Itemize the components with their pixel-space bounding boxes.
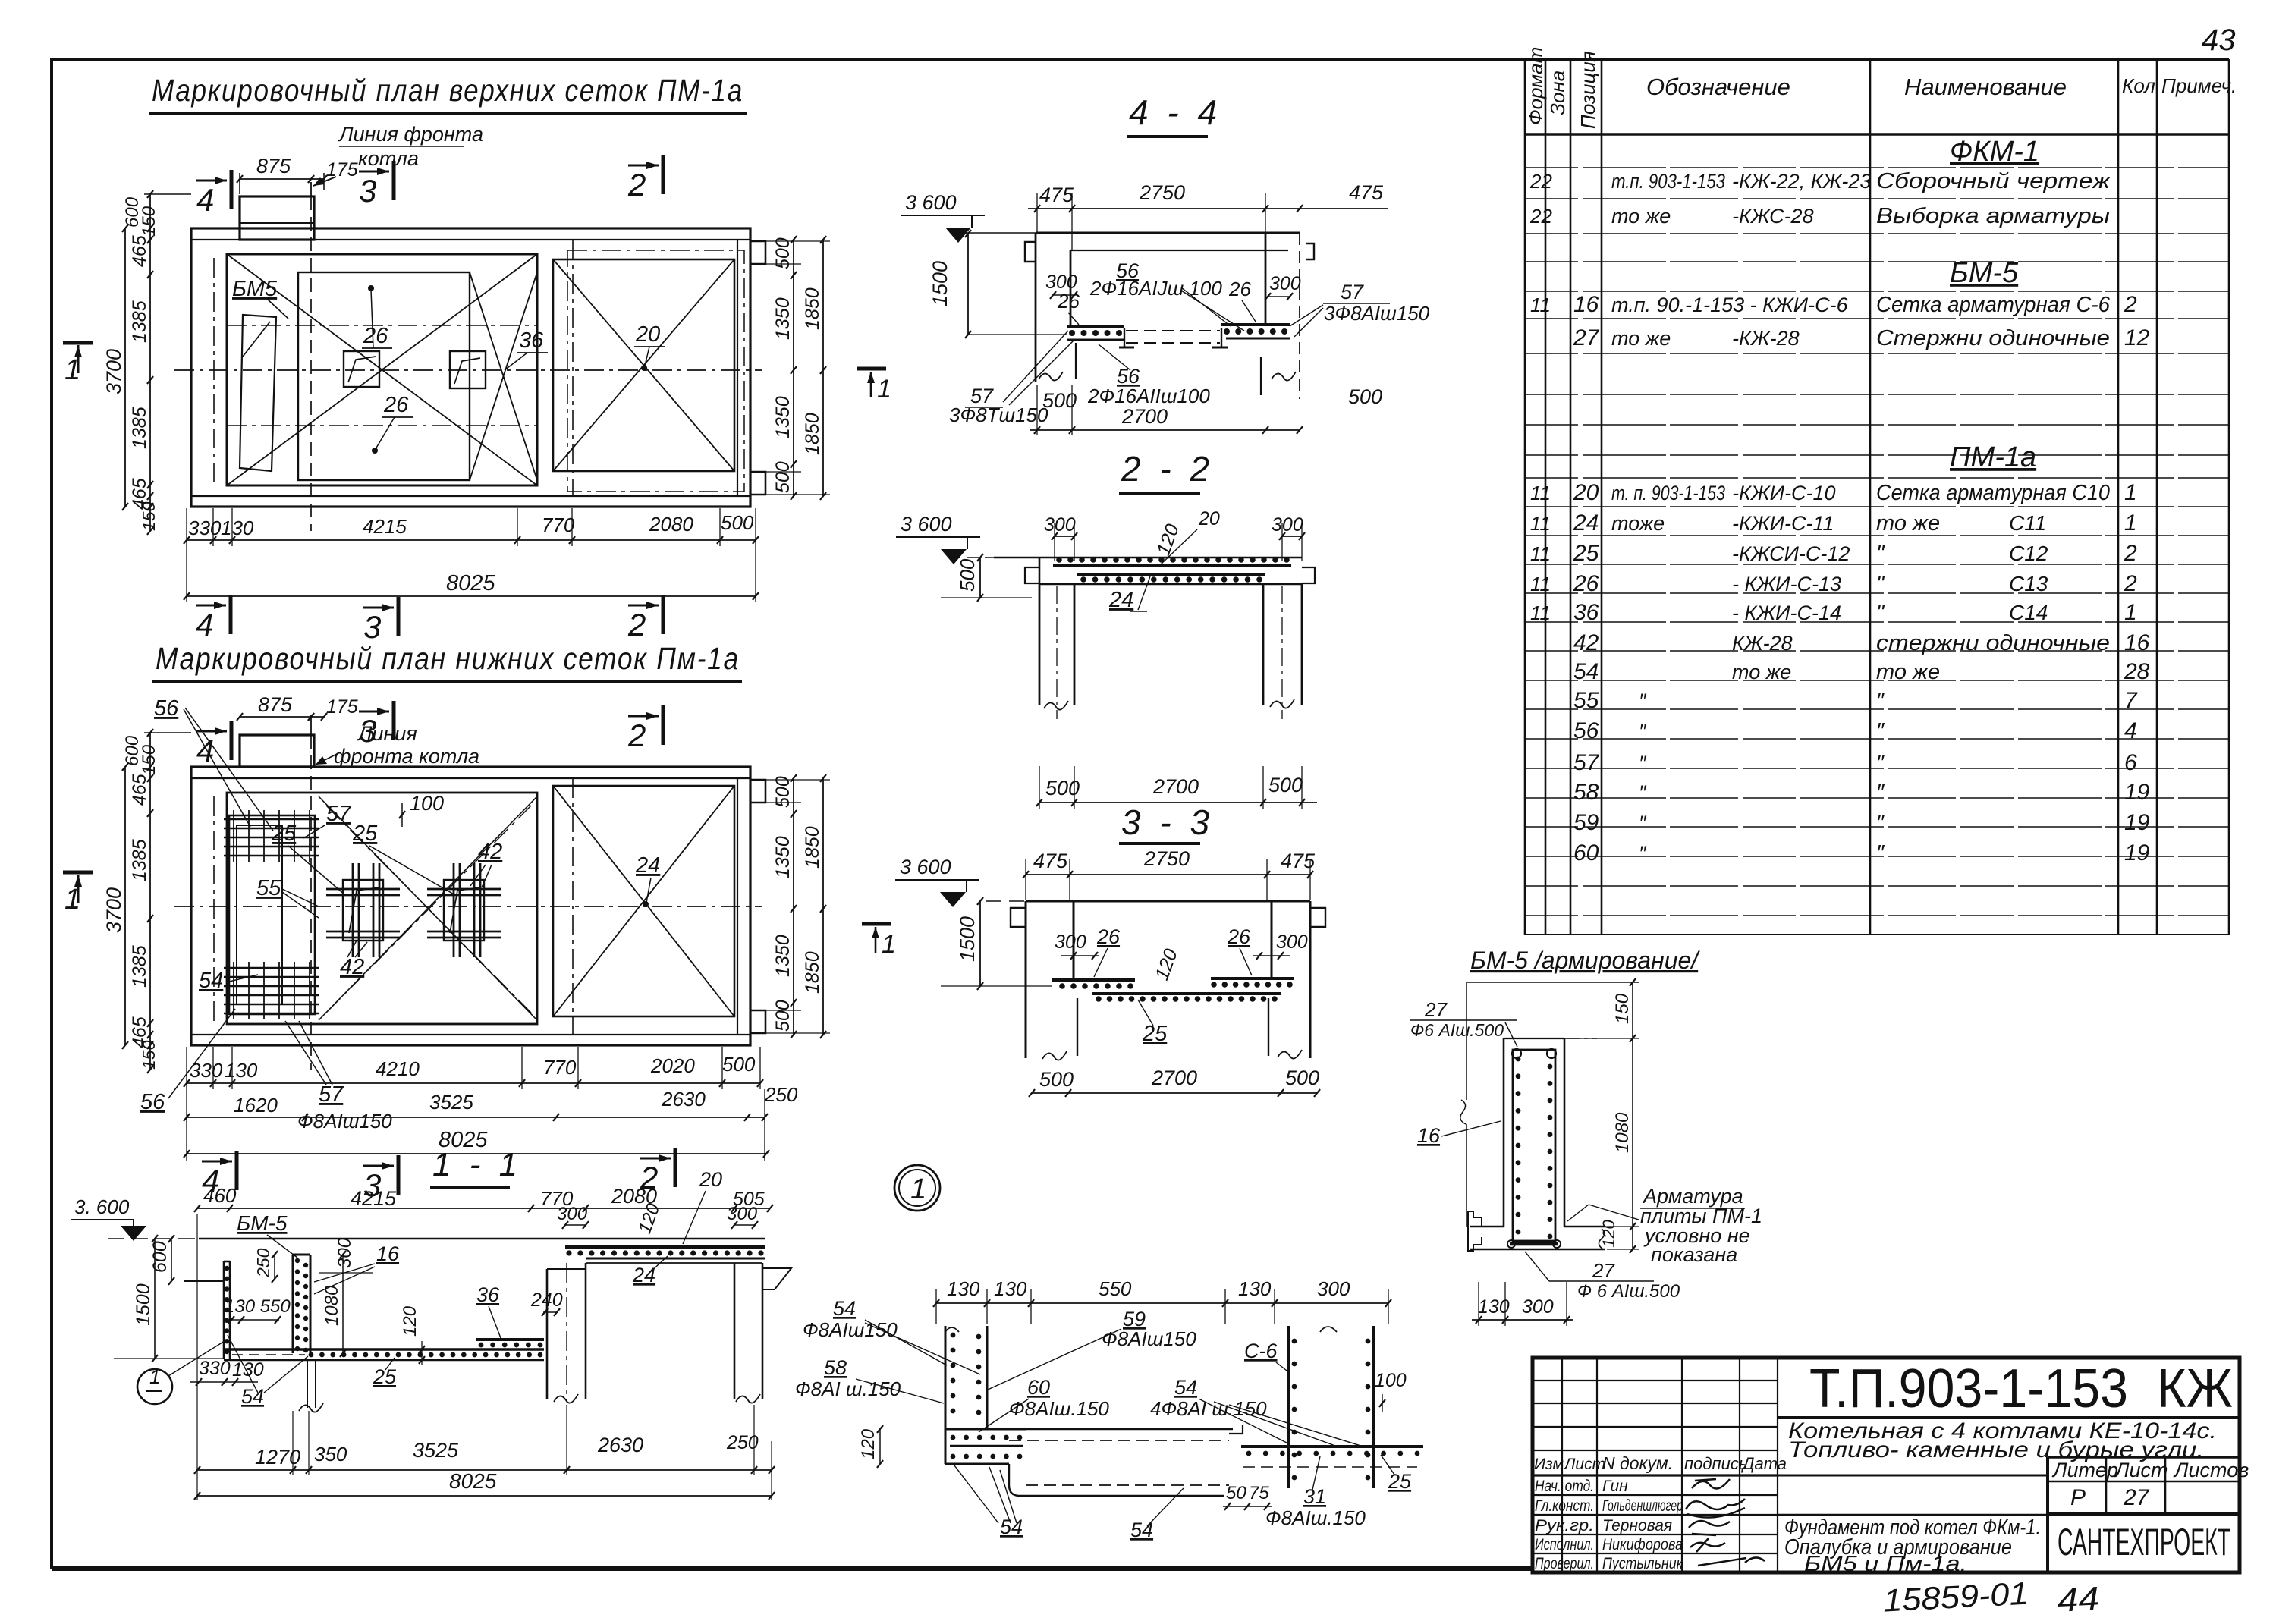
overall 8025 [187, 595, 756, 597]
detail circle mark 1 [894, 1165, 940, 1211]
left thin wall [223, 1261, 225, 1359]
svg-text:300: 300 [557, 1204, 588, 1224]
svg-text:3: 3 [359, 713, 376, 749]
svg-text:600: 600 [149, 1241, 171, 1273]
svg-text:″: ″ [1639, 720, 1647, 743]
svg-text:4215: 4215 [351, 1187, 397, 1210]
svg-text:130: 130 [225, 1059, 258, 1082]
svg-text:Наименование: Наименование [1904, 74, 2067, 100]
svg-text:″: ″ [1639, 752, 1647, 774]
svg-text:3: 3 [363, 609, 381, 645]
svg-text:58: 58 [824, 1356, 847, 1379]
svg-text:60: 60 [1027, 1376, 1050, 1399]
svg-text:Ф8АIш.150: Ф8АIш.150 [1265, 1506, 1366, 1529]
svg-text:44: 44 [2057, 1580, 2100, 1619]
svg-text:Позиция: Позиция [1577, 51, 1599, 129]
left dims lower plan [149, 733, 151, 1070]
svg-text:350: 350 [314, 1443, 347, 1465]
BM5 beam plan [240, 315, 276, 471]
svg-text:4: 4 [196, 607, 213, 642]
svg-text:330: 330 [199, 1358, 231, 1379]
svg-text:27: 27 [1424, 998, 1448, 1021]
svg-text:24: 24 [635, 853, 660, 878]
svg-text:": " [1876, 542, 1885, 566]
svg-text:54: 54 [241, 1385, 264, 1408]
svg-text:2020: 2020 [650, 1054, 695, 1077]
svg-text:1385: 1385 [129, 300, 150, 343]
bottom dims 500 2700 500 [1030, 429, 1300, 431]
svg-text:С14: С14 [2009, 601, 2048, 624]
svg-text:500: 500 [721, 511, 754, 534]
svg-text:2700: 2700 [1121, 405, 1168, 428]
svg-text:54: 54 [1174, 1376, 1197, 1399]
svg-text:3 600: 3 600 [905, 191, 957, 214]
boiler front line label [310, 182, 312, 196]
svg-text:300: 300 [1317, 1277, 1350, 1300]
svg-text:460: 460 [203, 1184, 237, 1207]
svg-text:2700: 2700 [1151, 1066, 1197, 1089]
svg-text:500: 500 [772, 237, 794, 269]
top dim chain 1-1 [197, 1208, 770, 1209]
corner floor [945, 1428, 1026, 1431]
bottom dimension chain [187, 539, 756, 541]
svg-text:54: 54 [833, 1297, 856, 1320]
svg-text:Проверил.: Проверил. [1535, 1555, 1594, 1572]
svg-text:Маркировочный план нижних с: Маркировочный план нижних сеток Пм-1а [156, 641, 740, 676]
wall band lines [191, 239, 750, 240]
svg-text:475: 475 [1281, 850, 1316, 872]
svg-text:4: 4 [2124, 718, 2137, 743]
svg-text:-КЖ-28: -КЖ-28 [1732, 327, 1800, 350]
svg-text:ПМ-1а: ПМ-1а [1950, 441, 2036, 473]
svg-text:1385: 1385 [129, 945, 150, 988]
dim 600 [171, 1239, 172, 1281]
svg-text:25: 25 [1573, 541, 1599, 566]
leg below floor [307, 1360, 308, 1408]
svg-text:16: 16 [376, 1242, 400, 1265]
svg-text:″: ″ [1639, 842, 1647, 865]
dim 875/175 top [240, 178, 311, 180]
svg-text:Листов: Листов [2173, 1459, 2249, 1481]
svg-text:3Ф8Тш150: 3Ф8Тш150 [949, 404, 1048, 426]
svg-text:27: 27 [1592, 1259, 1615, 1282]
svg-text:500: 500 [772, 461, 794, 493]
svg-text:Изм: Изм [1534, 1456, 1564, 1473]
svg-text:1270: 1270 [255, 1446, 300, 1469]
slab to the right of corner [1026, 1428, 1233, 1430]
svg-text:150: 150 [139, 206, 159, 237]
svg-text:75: 75 [1249, 1483, 1269, 1503]
svg-text:130 550: 130 550 [225, 1296, 291, 1317]
svg-text:25: 25 [1388, 1470, 1412, 1493]
svg-text:3700: 3700 [102, 887, 125, 933]
svg-text:Ф8АIш.150: Ф8АIш.150 [1009, 1397, 1109, 1420]
anchor opening left [344, 351, 379, 387]
300 dims on elevated slab [565, 1224, 586, 1226]
svg-text:Гл.конст.: Гл.конст. [1535, 1497, 1594, 1515]
svg-text:3 600: 3 600 [900, 856, 951, 878]
right dims lower plan [793, 778, 794, 1035]
central mesh rect [298, 272, 470, 480]
dim 120 left [879, 1429, 881, 1464]
svg-text:КЖ: КЖ [2157, 1359, 2233, 1419]
svg-text:59: 59 [1573, 810, 1599, 835]
svg-text:100: 100 [410, 792, 444, 815]
svg-text:15859-01: 15859-01 [1882, 1575, 2029, 1619]
svg-text:770: 770 [543, 1056, 577, 1079]
svg-text:Сетка арматурная С10: Сетка арматурная С10 [1876, 481, 2110, 505]
svg-text:25: 25 [271, 821, 297, 846]
svg-text:500: 500 [772, 1000, 794, 1032]
svg-text:25: 25 [373, 1365, 397, 1388]
svg-text:150: 150 [139, 1040, 159, 1070]
svg-text:то же: то же [1732, 661, 1791, 683]
bottom dims 3-3 [1032, 1092, 1317, 1094]
svg-text:Т.П.903-1-153: Т.П.903-1-153 [1809, 1359, 2128, 1419]
svg-text:11: 11 [1530, 542, 1551, 565]
svg-text:57: 57 [1573, 750, 1600, 775]
svg-text:″: ″ [1639, 689, 1647, 712]
svg-text:Обозначение: Обозначение [1646, 74, 1790, 100]
svg-text:-КЖИ-С-10: -КЖИ-С-10 [1732, 482, 1836, 504]
svg-text:1: 1 [2124, 600, 2137, 625]
svg-text:1385: 1385 [129, 839, 150, 881]
svg-text:56: 56 [140, 1090, 165, 1114]
svg-text:С13: С13 [2009, 572, 2048, 595]
BM-5 column [292, 1255, 294, 1353]
svg-text:показана: показана [1651, 1243, 1737, 1266]
dim 250 [274, 1255, 275, 1279]
right detail top dims 130 300 [1225, 1302, 1388, 1304]
svg-text:2750: 2750 [1143, 847, 1190, 870]
walls 2-2 [1039, 584, 1041, 705]
svg-text:42: 42 [1573, 630, 1599, 655]
svg-text:3 600: 3 600 [901, 513, 952, 536]
slab 2-2 [948, 557, 994, 558]
svg-text:20: 20 [635, 322, 660, 347]
dim 1500 [154, 1239, 156, 1359]
svg-text:20: 20 [1573, 480, 1599, 505]
svg-text:60: 60 [1573, 840, 1599, 865]
svg-text:42: 42 [478, 840, 502, 864]
svg-text:″: ″ [1876, 811, 1885, 835]
vertical dim 1500 3-3 [979, 901, 981, 986]
support walls right [546, 1269, 549, 1399]
svg-text:1: 1 [2124, 480, 2137, 505]
svg-text:2: 2 [2124, 541, 2137, 566]
svg-text:25: 25 [352, 821, 378, 846]
svg-text:1350: 1350 [772, 396, 794, 438]
rebar cage [1513, 1050, 1555, 1241]
specification table grid [1525, 59, 2229, 935]
lower plan outer outline [191, 767, 750, 1045]
svg-text:130: 130 [1238, 1277, 1272, 1300]
svg-text:54: 54 [199, 969, 223, 993]
svg-text:36: 36 [519, 328, 544, 353]
svg-text:27: 27 [2123, 1485, 2150, 1510]
svg-text:11: 11 [1530, 512, 1551, 535]
svg-text:300: 300 [1044, 514, 1076, 536]
svg-text:2: 2 [627, 607, 646, 642]
svg-text:стержни одиночные: стержни одиночные [1876, 631, 2110, 655]
subject cell [1778, 1514, 2048, 1516]
svg-text:58: 58 [1573, 780, 1599, 805]
svg-text:300: 300 [727, 1204, 758, 1224]
svg-text:26: 26 [383, 393, 409, 417]
svg-text:16: 16 [1417, 1124, 1441, 1147]
svg-text:24: 24 [632, 1264, 655, 1286]
svg-text:-КЖИ-С-11: -КЖИ-С-11 [1732, 512, 1834, 535]
svg-text:300: 300 [1522, 1296, 1554, 1318]
wall of corner detail [945, 1326, 947, 1464]
svg-text:250: 250 [253, 1248, 273, 1278]
top dims 475 2750 475 [1028, 208, 1388, 209]
svg-text:130: 130 [947, 1277, 980, 1300]
svg-text:19: 19 [2124, 780, 2150, 805]
right dimension chains [793, 240, 794, 496]
svg-text:Ф8АIш150: Ф8АIш150 [297, 1110, 392, 1132]
svg-text:Исполнил.: Исполнил. [1535, 1536, 1594, 1553]
svg-text:″: ″ [1876, 841, 1885, 865]
svg-text:500: 500 [772, 776, 794, 808]
svg-text:150: 150 [1612, 993, 1633, 1024]
svg-text:Выборка арматуры: Выборка арматуры [1876, 204, 2110, 228]
svg-text:1: 1 [882, 930, 896, 959]
svg-text:7: 7 [2124, 688, 2138, 713]
svg-text:2: 2 [2124, 292, 2137, 317]
boiler front box lower [240, 735, 314, 767]
svg-text:500: 500 [1042, 389, 1077, 412]
svg-text:8025: 8025 [449, 1469, 497, 1493]
svg-text:11: 11 [1530, 294, 1551, 316]
svg-text:ФКМ-1: ФКМ-1 [1950, 136, 2039, 168]
svg-text:475: 475 [1039, 184, 1074, 206]
svg-text:120: 120 [400, 1305, 420, 1337]
svg-text:″: ″ [1639, 781, 1647, 804]
mesh row dashdot lines [227, 325, 537, 326]
svg-text:″: ″ [1876, 751, 1885, 775]
cross frame a [343, 880, 383, 941]
svg-text:Сетка арматурная С-6: Сетка арматурная С-6 [1876, 293, 2111, 317]
svg-text:3. 600: 3. 600 [74, 1195, 130, 1218]
svg-text:300: 300 [1055, 931, 1086, 953]
svg-text:300: 300 [1045, 272, 1077, 293]
svg-text:-КЖ-22, КЖ-23: -КЖ-22, КЖ-23 [1732, 170, 1871, 193]
svg-text:130: 130 [994, 1277, 1027, 1300]
structure outline 3-3 [1026, 900, 1310, 903]
svg-text:Кол.: Кол. [2122, 74, 2161, 97]
section marks bottom [229, 595, 233, 634]
svg-text:475: 475 [1349, 181, 1384, 204]
svg-text:25: 25 [1142, 1022, 1168, 1046]
svg-text:1620: 1620 [234, 1094, 278, 1117]
svg-text:": " [1876, 572, 1885, 596]
svg-text:Ф8АI ш.150: Ф8АI ш.150 [795, 1377, 901, 1400]
svg-text:фронта котла: фронта котла [334, 745, 479, 768]
left corner detail top dims 130 130 550 [936, 1302, 1225, 1304]
svg-text:БМ5: БМ5 [232, 277, 278, 301]
liter list listov [2048, 1457, 2240, 1572]
svg-text:2700: 2700 [1152, 775, 1199, 798]
svg-text:770: 770 [542, 514, 575, 536]
svg-text:1: 1 [2124, 510, 2137, 536]
svg-text:САНТЕХПРОЕКТ: САНТЕХПРОЕКТ [2058, 1521, 2230, 1563]
svg-text:4Ф8АI ш.150: 4Ф8АI ш.150 [1150, 1397, 1267, 1420]
svg-text:2630: 2630 [661, 1088, 706, 1110]
anchor opening right [450, 351, 486, 388]
svg-text:2Ф16АIIш100: 2Ф16АIIш100 [1087, 385, 1210, 407]
svg-text:1: 1 [64, 354, 80, 386]
svg-text:130: 130 [232, 1359, 264, 1381]
bottom dims lower plan [187, 1082, 760, 1084]
svg-text:26: 26 [1228, 278, 1251, 300]
vertical dim 1500 [967, 234, 969, 335]
svg-text:150: 150 [139, 501, 159, 531]
svg-text:875: 875 [258, 693, 293, 716]
svg-text:500: 500 [1039, 1068, 1074, 1091]
svg-text:1850: 1850 [802, 287, 823, 330]
floor rebar 3-3 [1052, 978, 1135, 982]
svg-text:175: 175 [326, 159, 358, 181]
title block [1533, 1358, 2240, 1572]
section mark 1 left lower [63, 871, 93, 875]
top dims 3-3 [1026, 874, 1310, 875]
right notches lower [750, 780, 765, 803]
mesh 20 rect [553, 259, 734, 471]
svg-text:20: 20 [1198, 508, 1220, 529]
svg-text:11: 11 [1530, 573, 1551, 595]
svg-text:22: 22 [1529, 170, 1552, 193]
svg-text:11: 11 [1530, 482, 1551, 504]
upper plan outer outline [191, 228, 750, 507]
right zone dashdot boundary [572, 240, 574, 496]
bottom dim chain 1-1 [197, 1469, 772, 1471]
svg-text:С11: С11 [2009, 511, 2046, 535]
svg-text:Линия фронта: Линия фронта [338, 123, 483, 146]
section mark 1 left [63, 341, 93, 345]
boiler front axis [310, 196, 312, 531]
svg-text:330: 330 [190, 1059, 223, 1082]
svg-text:Зона: Зона [1546, 71, 1569, 115]
sheet frame bottom border [52, 1566, 1534, 1571]
svg-text:4: 4 [196, 182, 214, 218]
svg-text:Маркировочный план верхних: Маркировочный план верхних сеток ПМ-1а [152, 73, 743, 108]
foot slab [1470, 1226, 1504, 1227]
svg-text:4: 4 [196, 733, 214, 768]
svg-text:Гольденшлюгер: Гольденшлюгер [1602, 1497, 1683, 1515]
svg-text:56: 56 [154, 696, 179, 721]
svg-text:120: 120 [1599, 1220, 1618, 1248]
floor slab 1-1 [224, 1348, 544, 1350]
svg-text:19: 19 [2124, 840, 2150, 865]
svg-text:Лист: Лист [1563, 1456, 1605, 1473]
svg-text:Ф 6 АIш.500: Ф 6 АIш.500 [1577, 1281, 1680, 1302]
pit floor rebar right strip [1221, 323, 1290, 326]
svg-text:БМ5 и Пм-1а.: БМ5 и Пм-1а. [1804, 1552, 1967, 1576]
svg-text:250: 250 [726, 1432, 759, 1453]
svg-text:300: 300 [1272, 514, 1303, 536]
title block revision grid [1533, 1358, 1778, 1572]
svg-text:4210: 4210 [376, 1057, 420, 1080]
svg-text:43: 43 [2202, 24, 2236, 57]
C-6 floor bar [1241, 1445, 1423, 1448]
svg-text:26: 26 [363, 324, 388, 348]
svg-text:300: 300 [1276, 931, 1308, 953]
svg-text:″: ″ [1876, 689, 1885, 713]
right dim chain 150 1080 120 [1632, 982, 1633, 1249]
svg-text:3525: 3525 [413, 1439, 459, 1462]
svg-text:- КЖИ-С-13: - КЖИ-С-13 [1732, 573, 1841, 595]
svg-text:4215: 4215 [363, 515, 407, 538]
svg-text:50: 50 [1226, 1483, 1246, 1503]
svg-text:1385: 1385 [129, 407, 150, 449]
dim 1080 [342, 1255, 344, 1353]
svg-text:Сборочный чертеж: Сборочный чертеж [1876, 169, 2111, 193]
svg-text:2Ф16АIJш 100: 2Ф16АIJш 100 [1089, 277, 1222, 300]
svg-text:Литер: Литер [2051, 1459, 2118, 1481]
svg-text:100: 100 [1375, 1370, 1407, 1391]
svg-text:Нач. отд.: Нач. отд. [1535, 1478, 1594, 1495]
svg-text:3 - 3: 3 - 3 [1121, 803, 1214, 842]
svg-text:т.п. 90.-1-153 - КЖИ-С-6: т.п. 90.-1-153 - КЖИ-С-6 [1611, 294, 1849, 316]
svg-text:Р: Р [2070, 1485, 2086, 1510]
svg-text:36: 36 [476, 1283, 500, 1306]
left zone thick rect [227, 254, 537, 485]
rebar strip 36 [476, 1338, 544, 1341]
dim 500 left [979, 558, 981, 598]
svg-text:1350: 1350 [772, 836, 794, 878]
svg-text:55: 55 [256, 876, 281, 900]
svg-text:500: 500 [722, 1053, 756, 1076]
svg-text:тоже: тоже [1611, 512, 1665, 535]
svg-text:54: 54 [1000, 1516, 1023, 1538]
svg-text:2: 2 [627, 167, 646, 203]
svg-text:Рук.гр.: Рук.гр. [1535, 1517, 1594, 1534]
svg-text:55: 55 [1573, 688, 1599, 713]
svg-text:1: 1 [64, 884, 80, 916]
svg-text:27: 27 [1573, 325, 1600, 350]
svg-text:875: 875 [256, 155, 291, 177]
svg-text:С-6: С-6 [1244, 1340, 1278, 1362]
svg-text:1: 1 [149, 1365, 160, 1388]
section marks top [230, 170, 234, 209]
svg-text:БМ-5: БМ-5 [237, 1211, 288, 1235]
svg-text:57: 57 [326, 802, 352, 826]
svg-text:Гин: Гин [1602, 1478, 1628, 1495]
svg-text:26: 26 [1573, 571, 1599, 596]
pit floor dashed middle [1126, 330, 1220, 331]
svg-text:Дата: Дата [1740, 1454, 1787, 1473]
strip 36 with bowtie [470, 272, 537, 480]
svg-text:24: 24 [1108, 588, 1133, 612]
axis mark 1 [857, 367, 886, 371]
overall 8025 1-1 [197, 1495, 772, 1497]
sheet frame left border [50, 58, 53, 1569]
left zone long diagonals [227, 254, 537, 485]
wall stubs below 3-3 [1077, 998, 1078, 1056]
svg-text:3: 3 [359, 173, 376, 209]
svg-text:550: 550 [1099, 1277, 1132, 1300]
svg-text:150: 150 [139, 744, 159, 775]
pit floor rebar left strip [1067, 325, 1124, 328]
top extension line [1467, 982, 1639, 983]
svg-text:3Ф8АIш150: 3Ф8АIш150 [1324, 302, 1430, 325]
C profile at left foot [1468, 1211, 1482, 1251]
svg-text:2750: 2750 [1139, 181, 1185, 204]
svg-text:": " [1876, 601, 1885, 625]
svg-text:2080: 2080 [649, 513, 693, 536]
svg-text:1: 1 [910, 1173, 926, 1205]
